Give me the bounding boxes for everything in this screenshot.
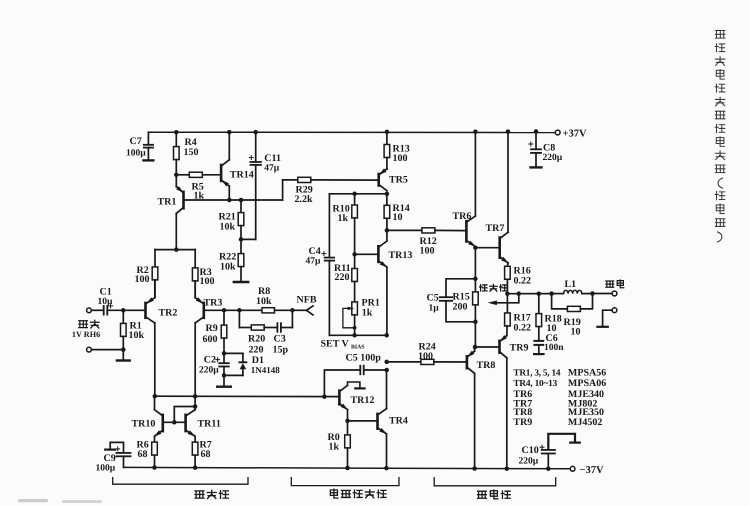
svg-text:100n: 100n [544, 343, 564, 353]
svg-text:1V RH6: 1V RH6 [72, 330, 100, 339]
svg-text:10k: 10k [220, 261, 236, 272]
capacitor C5 100p [346, 353, 387, 375]
wire mirror base bridge [174, 407, 195, 423]
wire SET Vbias node [329, 334, 386, 336]
resistor R1 [121, 310, 145, 349]
svg-text:R20: R20 [248, 333, 265, 344]
node feedback takeoff junction [517, 291, 522, 296]
label negative feedback 负反馈 [480, 284, 507, 291]
wire -37V bottom supply rail [124, 467, 573, 468]
node R1 top junction [121, 308, 126, 313]
node R10 bottom junction [352, 252, 357, 256]
output terminal lower [612, 308, 617, 313]
wire C1 to TR2 base [107, 309, 145, 311]
svg-text:MPSA56: MPSA56 [568, 368, 606, 379]
svg-text:TR8: TR8 [477, 360, 496, 371]
svg-text:C2: C2 [204, 355, 216, 366]
resistor R14 [384, 194, 410, 231]
capacitor C3 [273, 310, 293, 355]
resistor R19 [552, 294, 593, 338]
node R1 bottom junction [121, 347, 126, 352]
svg-text:1k: 1k [329, 441, 340, 452]
svg-text:TR3: TR3 [204, 297, 223, 308]
node TR8 collector rail junction [472, 466, 477, 471]
label output stage 输出级 [477, 490, 510, 499]
svg-text:1k: 1k [338, 213, 349, 224]
resistor R29 [283, 177, 379, 205]
svg-text:68: 68 [138, 449, 148, 460]
brace output stage [434, 478, 556, 486]
svg-text:+37V: +37V [563, 129, 587, 140]
svg-text:C7: C7 [130, 136, 142, 147]
node R21-R22-C11 junction [239, 237, 244, 242]
wire output node [507, 293, 551, 295]
capacitor C1 [98, 287, 114, 315]
node SET-Vbias main junction [384, 333, 389, 338]
label NFB [297, 294, 317, 305]
inductor L1 [552, 279, 593, 294]
transistor TR12 [339, 382, 374, 421]
node TR7 base junction [473, 245, 478, 250]
svg-text:47µ: 47µ [306, 256, 322, 266]
svg-text:TR11: TR11 [198, 418, 221, 429]
node R14 bottom junction [385, 228, 390, 233]
svg-text:TR9: TR9 [513, 417, 532, 428]
svg-text:15p: 15p [273, 344, 289, 355]
svg-text:100: 100 [135, 274, 150, 285]
svg-text:NFB: NFB [297, 294, 317, 305]
transistor TR7 [486, 132, 509, 266]
label transistor list line2 [513, 378, 606, 389]
label input stage 输入级 [195, 490, 228, 498]
svg-text:TR7: TR7 [486, 223, 505, 234]
svg-text:R9: R9 [206, 323, 218, 334]
potentiometer PR1 [343, 298, 380, 336]
node output R16 junction [505, 291, 510, 296]
svg-text:TR1: TR1 [158, 196, 177, 207]
wire TR7 base [475, 247, 499, 249]
svg-text:TR4: TR4 [389, 415, 408, 426]
svg-text:1N4148: 1N4148 [251, 365, 280, 375]
transistor TR2 [146, 280, 178, 396]
svg-text:TR12: TR12 [351, 395, 375, 406]
wire R15 to TR8 emitter node [474, 322, 476, 347]
node R8 left junction [237, 308, 242, 313]
resistor R18 [536, 294, 562, 340]
svg-text:220µ: 220µ [543, 153, 563, 163]
node TR9 collector rail junction [505, 466, 510, 471]
resistor R15 [453, 279, 479, 322]
svg-text:200: 200 [453, 301, 468, 312]
node TR9 base junction [473, 345, 478, 350]
svg-text:TR13: TR13 [389, 250, 413, 261]
node top-rail R13 junction [385, 130, 390, 135]
node R15 top junction [473, 277, 478, 282]
svg-text:BIAS: BIAS [351, 344, 365, 350]
node top-rail R4 junction [174, 130, 179, 135]
resistor R5 [176, 172, 221, 202]
resistor R24 [387, 341, 467, 364]
svg-text:TR10: TR10 [132, 418, 156, 429]
svg-text:100: 100 [393, 153, 408, 164]
node L1 left junction [549, 291, 554, 296]
label SET Vbias [321, 338, 365, 350]
node L1 right junction [590, 291, 595, 296]
svg-text:L1: L1 [565, 279, 577, 290]
svg-text:220: 220 [335, 272, 350, 283]
svg-text:220µ: 220µ [199, 365, 219, 375]
resistor R16 [505, 265, 531, 293]
svg-text:TR9: TR9 [510, 342, 529, 353]
ground input [117, 350, 130, 361]
node R7 bottom rail junction [193, 465, 198, 470]
svg-text:1µ: 1µ [429, 303, 440, 313]
node top-rail TR6 collector junction [473, 129, 478, 134]
node R18 top junction [537, 291, 542, 296]
transistor TR11 [186, 396, 221, 442]
svg-text:220µ: 220µ [519, 457, 539, 467]
diode D1 [224, 353, 280, 375]
wire faint scan smudge left [18, 499, 48, 502]
svg-text:10k: 10k [220, 222, 236, 233]
transistor TR3 [195, 281, 224, 396]
node C5 right junction [384, 368, 389, 373]
capacitor C10 [519, 434, 580, 469]
node R24 left junction [384, 360, 389, 365]
svg-text:100: 100 [418, 351, 433, 362]
capacitor C8 [529, 132, 563, 168]
transistor TR13 [378, 230, 412, 335]
node bridge TR11 collector junction [193, 404, 198, 409]
svg-text:C5 100p: C5 100p [346, 353, 382, 364]
label VAS stage 电压放大级 [330, 489, 386, 498]
ground output return [597, 310, 612, 327]
resistor R7 [192, 439, 211, 467]
wire R20 branch left [239, 310, 251, 327]
transistor TR1 [158, 175, 283, 250]
wire TR5 emitter node [329, 193, 387, 195]
svg-text:TR14: TR14 [230, 170, 254, 181]
node TR5 emitter junction [385, 192, 390, 197]
wire +37V top supply rail [148, 131, 557, 133]
power terminal -37V [570, 465, 604, 476]
resistor R2 [135, 250, 158, 298]
node C10 rail junction [546, 466, 551, 471]
label transistor list line3 [513, 389, 604, 400]
svg-text:1k: 1k [362, 307, 373, 318]
wire faint scan smudge mid [62, 500, 102, 503]
label transistor list line4 [513, 399, 597, 410]
input terminal upper [87, 308, 92, 313]
svg-text:C11: C11 [264, 153, 281, 164]
svg-text:10k: 10k [256, 296, 272, 307]
capacitor C5 1u [427, 279, 476, 322]
node tail junction [174, 247, 179, 252]
transistor TR8 [467, 347, 496, 469]
resistor R6 [137, 439, 158, 467]
svg-text:10: 10 [393, 212, 403, 223]
wire VAS input bus [155, 395, 340, 397]
transistor TR10 [132, 396, 186, 442]
svg-text:150: 150 [184, 147, 199, 158]
svg-text:TR2: TR2 [159, 308, 178, 319]
node TR4 emitter rail junction [384, 466, 389, 471]
capacitor C4 [306, 194, 335, 335]
wire TR13 base [355, 253, 379, 255]
resistor R12 [387, 228, 467, 257]
transistor TR9 [475, 326, 529, 469]
svg-text:47µ: 47µ [264, 163, 280, 173]
svg-text:100: 100 [420, 246, 435, 257]
svg-text:C10: C10 [522, 445, 539, 456]
resistor R3 [192, 250, 214, 298]
resistor R21 [219, 200, 244, 239]
svg-text:0.22: 0.22 [514, 275, 532, 286]
svg-text:2.2k: 2.2k [295, 194, 314, 205]
label output Chinese 输出 [606, 280, 624, 288]
node R9 bottom junction [222, 351, 227, 378]
brace VAS stage [291, 478, 399, 486]
node R4-R5-TR1 junction [174, 173, 179, 178]
transistor TR14 [221, 132, 254, 200]
svg-text:C8: C8 [543, 142, 555, 153]
svg-text:MPSA06: MPSA06 [568, 378, 606, 389]
capacitor C7 [126, 132, 153, 160]
svg-text:TR6: TR6 [453, 211, 472, 222]
svg-text:TR4, 10~13: TR4, 10~13 [513, 379, 557, 389]
node top-rail TR7 collector junction [506, 129, 511, 134]
transistor TR4 [378, 370, 408, 468]
svg-text:TR1, 3, 5, 14: TR1, 3, 5, 14 [513, 369, 560, 379]
capacitor C2 [199, 353, 229, 375]
node TR14 emitter / TR1 base junction [227, 198, 232, 203]
ground below C2 D1 [217, 375, 231, 386]
node bus C5 junction [322, 394, 327, 399]
svg-text:−37V: −37V [580, 465, 604, 476]
svg-text:100µ: 100µ [96, 463, 116, 473]
wire lower input to R1 [91, 349, 123, 351]
input terminal lower [87, 347, 92, 352]
node top-rail TR14 collector junction [227, 130, 232, 135]
wire C5 branch [324, 370, 359, 397]
node PR1 bottom junction [352, 333, 357, 338]
capacitor C11 [241, 132, 281, 239]
svg-text:10k: 10k [129, 330, 145, 341]
svg-text:68: 68 [201, 449, 211, 460]
node R8 right junction [290, 308, 295, 313]
svg-text:MJ4502: MJ4502 [568, 417, 602, 428]
wire differential tail node [155, 249, 195, 251]
wire TR1-base to R29 riser [282, 180, 284, 200]
resistor R17 [505, 294, 531, 334]
label transistor list line5 [513, 407, 604, 418]
node TR12 emitter junction [345, 419, 350, 424]
svg-text:100µ: 100µ [126, 149, 146, 159]
label vertical book title 音频功率放大器设计手册（第四版） [715, 30, 725, 241]
svg-text:100: 100 [200, 276, 215, 287]
wire NFB stub [292, 306, 313, 315]
resistor R10 [333, 194, 358, 255]
node R0 bottom rail junction [345, 466, 350, 471]
resistor R22 [219, 239, 244, 281]
node R6 bottom rail junction [152, 465, 157, 470]
svg-text:10µ: 10µ [98, 297, 114, 307]
svg-text:SET V: SET V [321, 338, 350, 349]
node mirror base junction [172, 420, 177, 425]
svg-text:220: 220 [249, 344, 264, 355]
resistor R9 [203, 310, 227, 353]
node top-rail C8 junction [534, 129, 539, 134]
resistor R13 [384, 132, 410, 169]
node TR3 base R9 junction [222, 308, 227, 313]
transistor TR6 [453, 132, 477, 279]
svg-text:0.22: 0.22 [514, 322, 532, 333]
label input Chinese 输入 [79, 320, 99, 328]
node bus TR3 collector junction [193, 394, 198, 399]
ground below R22 [234, 281, 248, 283]
wire to output terminal [593, 293, 613, 295]
svg-text:600: 600 [203, 334, 218, 345]
wire input to C1 [91, 309, 103, 311]
wire TR12 emitter to TR4 base [348, 420, 378, 422]
node top-rail C11 junction [253, 130, 258, 135]
resistor R4 [174, 132, 199, 175]
capacitor C9 [96, 442, 131, 473]
node R10 top junction [352, 192, 357, 197]
resistor R11 [334, 254, 357, 302]
power terminal +37V [555, 129, 587, 140]
svg-text:TR5: TR5 [389, 175, 408, 186]
svg-text:C5: C5 [427, 293, 439, 304]
svg-text:C9: C9 [104, 453, 116, 464]
node R21 top junction [239, 198, 244, 203]
svg-text:10: 10 [571, 326, 581, 337]
capacitor C6 [534, 333, 564, 354]
output terminal upper [612, 291, 617, 296]
node bus TR2 collector junction [153, 394, 158, 399]
resistor R8 [256, 286, 292, 313]
node R15 bottom junction [473, 320, 478, 325]
label input level [72, 330, 100, 339]
label transistor list line6 [513, 417, 602, 428]
wire TR3 base bus [224, 309, 262, 311]
wire feedback arrow [488, 294, 519, 306]
resistor R0 [328, 421, 351, 468]
resistor R20 [248, 325, 277, 355]
transistor TR5 [379, 168, 408, 190]
brace input stage [113, 478, 248, 485]
label transistor list line1 [513, 368, 606, 379]
svg-text:C3: C3 [274, 333, 286, 344]
